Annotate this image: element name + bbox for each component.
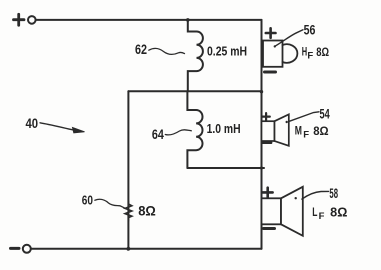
speaker 54 minus (262, 141, 271, 144)
label 54 leader (290, 112, 319, 121)
svg-text:40: 40 (26, 116, 39, 131)
resistor R60 (8 ohm) (125, 201, 132, 221)
speaker MF 54 (262, 113, 289, 146)
label 40 arrow (40, 123, 74, 130)
svg-text:8Ω: 8Ω (138, 202, 156, 218)
wire right vertical (261, 20, 263, 249)
wire bottom rail (31, 248, 262, 250)
svg-text:64: 64 (152, 127, 164, 142)
svg-text:56: 56 (304, 21, 316, 37)
svg-text:F: F (319, 211, 325, 222)
node junction bottom rail / left wire (126, 247, 130, 251)
svg-text:58: 58 (329, 186, 338, 201)
svg-text:F: F (303, 129, 309, 140)
speaker LF 58 (262, 187, 303, 236)
node junction top of L62 (186, 18, 190, 22)
node junction mid rail / right wire (260, 90, 263, 93)
speaker 54 cone (275, 114, 289, 146)
svg-text:62: 62 (135, 42, 147, 57)
svg-text:8Ω: 8Ω (313, 124, 329, 138)
speaker 58 plus (263, 188, 273, 198)
wire top rail (36, 19, 262, 21)
label 56 leader (275, 30, 303, 47)
speaker 58 cone (281, 187, 303, 236)
svg-text:0.25 mH: 0.25 mH (207, 44, 247, 58)
inductor L64 (1.0 mH) (187, 91, 202, 168)
+ terminal circle (28, 16, 36, 24)
speaker 56 body rect (263, 41, 283, 67)
speaker 54 plus (263, 113, 270, 120)
label 56 leader dot (274, 45, 276, 47)
svg-text:54: 54 (320, 106, 330, 122)
svg-text:60: 60 (82, 193, 93, 208)
svg-text:F: F (307, 50, 313, 61)
label 58 leader (302, 191, 329, 199)
node junction lower rail / right wire (260, 166, 263, 169)
svg-text:1.0 mH: 1.0 mH (207, 122, 241, 136)
+ terminal plus sign (14, 14, 25, 25)
label 62 leader (149, 48, 185, 54)
wire left vertical (127, 91, 129, 249)
svg-text:H: H (302, 46, 307, 58)
label 58 leader dot (295, 197, 297, 199)
wire mid rail (128, 90, 261, 92)
speaker 58 body rect (262, 198, 282, 224)
svg-text:L: L (312, 207, 317, 219)
inductor L62 (0.25 mH) (188, 20, 203, 91)
speaker 56 dome (283, 44, 298, 63)
- terminal minus sign (11, 247, 20, 250)
svg-text:8Ω: 8Ω (330, 206, 347, 220)
- terminal circle (23, 245, 31, 253)
label 40 arrowhead (73, 128, 85, 133)
wire lower rail (187, 167, 264, 169)
label 60 leader (95, 199, 125, 208)
svg-text:8Ω: 8Ω (316, 45, 329, 59)
svg-text:M: M (295, 126, 302, 138)
speaker 56 minus (265, 71, 276, 74)
speaker 58 minus (264, 227, 275, 230)
label 64 leader (165, 130, 191, 135)
speaker HF 56 (263, 28, 297, 72)
speaker 56 plus (266, 28, 276, 38)
speaker 54 body rect (262, 121, 275, 141)
label 54 leader dot (286, 121, 288, 123)
